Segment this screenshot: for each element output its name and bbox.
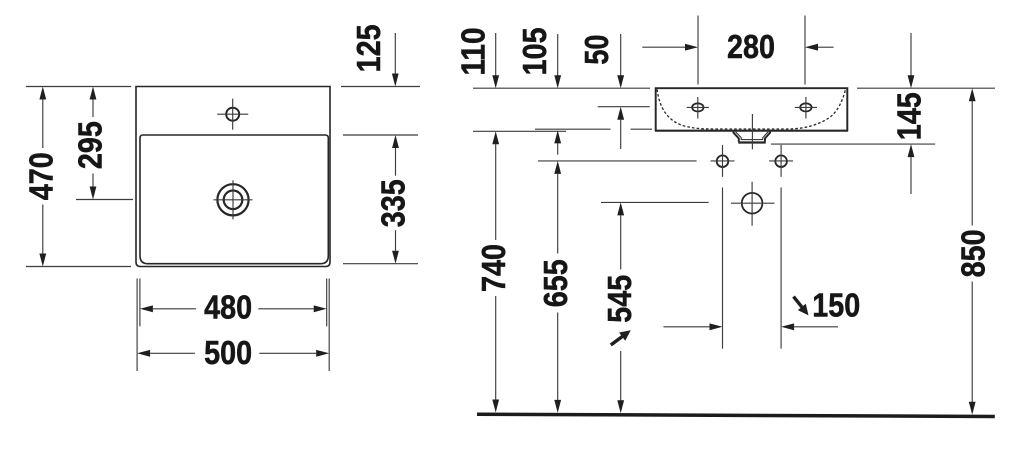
- dim 150 label: [812, 287, 860, 324]
- extension line bottom-left: [26, 266, 131, 268]
- dim 500 line+arrows: [137, 350, 329, 357]
- dim 145 upper arrow: [908, 33, 915, 88]
- dim 335 line+arrows: [392, 135, 399, 264]
- dim 295 label: [72, 121, 109, 169]
- extension line 280 left: [697, 16, 699, 85]
- dim 850 label: [956, 229, 993, 277]
- tap-hole level line: [598, 106, 650, 108]
- dim 740 label: [476, 244, 513, 292]
- extension line 500 right: [328, 279, 330, 372]
- spigot level line: [771, 143, 935, 145]
- dim 480 label: [204, 289, 252, 326]
- dim 150 line+arrows: [663, 323, 838, 330]
- tap hole right (front): [795, 97, 817, 119]
- svg-text:110: 110: [456, 28, 493, 76]
- dim 470 line+arrows: [39, 87, 46, 267]
- top edge extension right: [857, 87, 995, 89]
- dim 545 label: [602, 275, 639, 323]
- dim 50 label: [579, 35, 616, 65]
- basin inner rim (plan): [140, 135, 328, 264]
- centerline: [751, 114, 753, 149]
- extension line inner-rim bottom: [343, 263, 418, 265]
- svg-text:105: 105: [517, 27, 554, 75]
- svg-text:50: 50: [579, 35, 616, 65]
- fixing hole left: [711, 145, 735, 177]
- svg-text:150: 150: [812, 287, 860, 324]
- dim 280 line+arrows: [642, 44, 833, 51]
- top edge extension left: [473, 87, 650, 89]
- svg-text:655: 655: [538, 259, 575, 307]
- svg-text:500: 500: [204, 335, 252, 372]
- dim 655 line+arrows: [554, 161, 561, 413]
- dim 545 line+arrows: [617, 202, 624, 413]
- waste hole (front): [731, 182, 775, 226]
- fixing hole right: [769, 145, 793, 177]
- dim 110 label: [456, 28, 493, 76]
- extension line inner-rim top: [343, 134, 418, 136]
- dim 295 line+arrows: [90, 87, 97, 200]
- extension line 480 right: [326, 279, 328, 327]
- extension line plan top-right: [341, 86, 420, 88]
- dim 145 label: [891, 92, 928, 140]
- dim 105 lower arrow: [554, 130, 561, 154]
- drain spigot (front): [733, 131, 770, 143]
- svg-text:280: 280: [727, 29, 775, 66]
- 105 level line: [535, 128, 652, 130]
- extension line 480 left: [139, 279, 141, 327]
- dim 470 label: [24, 152, 61, 200]
- tap hole (plan): [217, 99, 248, 130]
- washbasin front outline: [655, 88, 848, 131]
- dim 655 label: [538, 259, 575, 307]
- dim 105 label: [517, 27, 554, 75]
- svg-text:470: 470: [24, 152, 61, 200]
- dim 125 line+arrow: [392, 33, 399, 87]
- svg-text:125: 125: [351, 24, 388, 72]
- dim 480 line+arrows: [140, 305, 327, 312]
- dim 150 leader arrow: [794, 297, 809, 316]
- floor line: [477, 413, 995, 419]
- drain (plan): [214, 180, 253, 219]
- 110 level line: [473, 130, 566, 132]
- tap hole left (front): [687, 97, 709, 119]
- basin interior curve: [657, 89, 845, 129]
- dim 280 label: [727, 29, 775, 66]
- dim 145 lower arrow: [908, 144, 915, 194]
- dim 335 label: [376, 179, 413, 227]
- dim 105 line+arrow: [554, 34, 561, 88]
- fixing level line: [538, 160, 697, 162]
- svg-text:480: 480: [204, 289, 252, 326]
- svg-text:145: 145: [891, 92, 928, 140]
- fixing vertical left: [722, 188, 724, 349]
- dim 50 line+arrow: [617, 34, 624, 88]
- fixing vertical right: [780, 188, 782, 349]
- svg-text:545: 545: [602, 275, 639, 323]
- extension line 500 left: [136, 279, 138, 372]
- extension line drain-center (plan): [76, 199, 133, 201]
- dim 740 line+arrows: [492, 131, 499, 412]
- svg-text:850: 850: [956, 229, 993, 277]
- svg-text:335: 335: [376, 179, 413, 227]
- dim 125 label: [351, 24, 388, 72]
- dim 545 leader arrow: [611, 330, 631, 345]
- extension line top-left: [26, 86, 131, 88]
- dim 850 line+arrows: [969, 88, 976, 415]
- dim 110 line+arrow: [492, 33, 499, 88]
- svg-text:740: 740: [476, 244, 513, 292]
- washbasin plan outline: [136, 87, 330, 267]
- dim 500 label: [204, 335, 252, 372]
- dim 50 lower arrow: [617, 107, 624, 149]
- extension line 280 right: [804, 16, 806, 85]
- svg-text:295: 295: [72, 121, 109, 169]
- drain level line: [601, 201, 709, 203]
